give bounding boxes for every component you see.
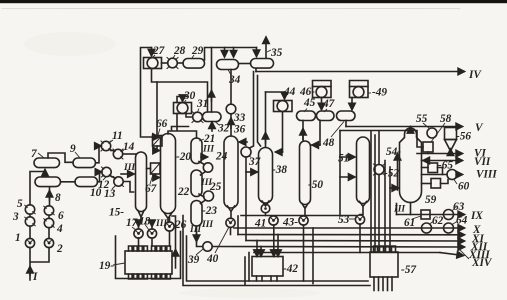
- wire arrows into drum 34: [224, 48, 226, 57]
- leader 53: [349, 218, 355, 220]
- wire 59 out: [441, 180, 449, 184]
- svg-text:67: 67: [145, 183, 158, 195]
- pump 40: [226, 218, 235, 227]
- wire 23 down to mixer 39: [197, 226, 203, 247]
- leader 35: [267, 50, 271, 52]
- wire col36 up to 33: [230, 114, 232, 136]
- pump 1: [25, 238, 34, 247]
- svg-text:48: 48: [322, 137, 335, 149]
- column 20 bottom taper: [164, 213, 172, 223]
- wire valve6 up to exchanger 8: [49, 188, 51, 206]
- svg-text:-65: -65: [438, 160, 453, 172]
- wire 46 down into drum 45: [321, 98, 323, 110]
- leader 12: [103, 177, 106, 180]
- svg-text:IV: IV: [468, 69, 482, 81]
- wire 52 down to furnace 57: [378, 175, 380, 253]
- exchanger 42: [252, 257, 283, 277]
- svg-text:36: 36: [233, 124, 246, 136]
- wire 32 bottom arrow: [211, 123, 213, 132]
- wires pumps to furnace 19: [139, 231, 170, 246]
- mixer 39: [203, 242, 212, 251]
- mixer 12: [102, 167, 112, 177]
- wire 54 to 65: [422, 167, 429, 169]
- drum 35: [251, 59, 274, 69]
- svg-text:32: 32: [217, 123, 230, 135]
- wire column20 bottom to pump 18: [151, 222, 153, 229]
- wire 9 to mixer 11: [96, 146, 101, 163]
- wire 29 top line over to 34 and 35: [205, 48, 257, 61]
- wire pump43 drop: [303, 225, 305, 281]
- compressor 46: [313, 87, 332, 98]
- drum 34: [217, 60, 239, 70]
- column 51: [357, 137, 370, 204]
- svg-text:IX: IX: [470, 210, 483, 222]
- wire pump1 to valve 3: [29, 226, 31, 238]
- line XII: [246, 240, 464, 243]
- svg-text:III: III: [123, 163, 135, 173]
- wire 34 down to valve 33: [230, 70, 232, 105]
- wire down from hot line to compressor 27: [141, 48, 152, 138]
- mixer 28: [167, 58, 178, 69]
- wire 13 to column 15 lower: [123, 182, 133, 193]
- wire oval48 drain to line V: [345, 121, 347, 127]
- wire loop into 44: [266, 91, 285, 93]
- drum 32: [203, 112, 222, 122]
- wire valve3 to valve5: [29, 214, 31, 217]
- wire feed into column 36: [240, 141, 247, 143]
- wire 34 to 35: [239, 63, 251, 65]
- svg-text:64: 64: [456, 215, 468, 227]
- svg-text:54-: 54-: [386, 146, 401, 158]
- faint rule under bar: [2, 7, 460, 9]
- wire 7 top to 9: [48, 153, 73, 162]
- valve 52: [374, 164, 385, 175]
- wire feed arrow into 54 side: [390, 187, 398, 189]
- box 65: [428, 163, 438, 173]
- exchanger 8: [35, 177, 61, 187]
- wire 8 to 10: [61, 181, 76, 183]
- svg-text:XIV: XIV: [471, 257, 493, 269]
- svg-text:2: 2: [56, 243, 63, 255]
- leader 30: [184, 100, 186, 103]
- svg-text:53: 53: [338, 214, 350, 226]
- column 20 (main tower): [161, 134, 176, 214]
- svg-text:24: 24: [215, 151, 228, 163]
- line XI: [237, 216, 239, 235]
- wire col20 to pump 26: [169, 218, 171, 222]
- bottom return line a: [187, 236, 369, 281]
- leader 19: [113, 263, 125, 265]
- leader 11: [109, 140, 113, 143]
- wire drum45 down to col 50: [302, 121, 304, 142]
- leader 39: [196, 249, 203, 255]
- svg-text:39: 39: [187, 254, 200, 266]
- leader 67: [150, 175, 153, 185]
- svg-text:III: III: [155, 219, 167, 229]
- leader 13: [112, 185, 116, 189]
- furnace 19: [125, 246, 172, 279]
- svg-text:22: 22: [177, 186, 190, 198]
- valve 4: [44, 218, 54, 227]
- column 50 bottom: [302, 204, 308, 216]
- line X: [234, 227, 464, 229]
- svg-text:-56: -56: [456, 131, 471, 143]
- circle 60: [447, 170, 457, 180]
- svg-text:I: I: [32, 271, 38, 283]
- wire 49 loop: [350, 81, 369, 87]
- wire drop 278: [277, 235, 279, 256]
- leader 14: [121, 150, 124, 152]
- svg-text:8: 8: [55, 192, 61, 204]
- wire 21 to valve 24: [199, 162, 205, 165]
- wire 11 to 14: [110, 150, 115, 152]
- column 50: [300, 141, 311, 205]
- nested return wires left of 42: [245, 253, 249, 286]
- wire drop 257: [256, 241, 258, 256]
- leader 37: [248, 156, 251, 157]
- line VII: [422, 160, 463, 162]
- svg-text:11: 11: [112, 130, 123, 142]
- leader 26: [174, 225, 177, 226]
- leader 18: [144, 223, 149, 230]
- svg-text:45: 45: [303, 97, 316, 109]
- pump 41: [269, 216, 278, 225]
- wire III into 54 bottom line: [396, 204, 398, 215]
- wire 46 loop: [313, 81, 332, 87]
- leader 32: [215, 122, 219, 126]
- pump 2: [44, 238, 53, 247]
- wire stub into column 38 left: [246, 171, 257, 173]
- vent arrow 35: [265, 38, 267, 59]
- box 58a: [423, 142, 433, 152]
- leader 17: [132, 227, 136, 230]
- leader 61: [412, 216, 421, 219]
- drum 67: [151, 163, 161, 174]
- leader 27: [152, 55, 155, 58]
- wire 49 down into drum 48: [351, 98, 353, 110]
- valve 5: [25, 205, 35, 214]
- wire 52 riser: [378, 131, 380, 165]
- second overhead line to 58: [340, 131, 423, 148]
- wire 65 to 60: [438, 168, 443, 175]
- svg-text:18: 18: [139, 216, 151, 228]
- wire riser from vapor line up: [211, 48, 213, 113]
- wire arrow into 54 on VII: [424, 160, 429, 162]
- leader 55: [423, 123, 430, 129]
- svg-text:55: 55: [416, 113, 428, 125]
- column 51 bottom to pump 53: [360, 202, 367, 215]
- svg-text:-50: -50: [308, 179, 323, 191]
- mixer 11: [101, 141, 111, 151]
- leader 45: [304, 109, 307, 113]
- line IV: [256, 71, 464, 73]
- column 36 bottom to pump 40: [228, 206, 235, 218]
- leader 34: [228, 70, 231, 76]
- pump 26: [165, 222, 174, 231]
- leader 60: [454, 180, 457, 185]
- svg-text:III: III: [189, 225, 201, 235]
- line XIV: [254, 252, 440, 254]
- column 38: [259, 148, 273, 204]
- wire 54 to 59: [422, 183, 432, 185]
- pump 17: [134, 229, 143, 238]
- leader 58: [431, 123, 445, 142]
- leader 29: [192, 55, 194, 58]
- svg-text:-57: -57: [401, 264, 417, 276]
- mixer 31: [192, 112, 203, 123]
- wire 14 to column 15: [123, 153, 136, 155]
- wire 25 to 23: [201, 200, 206, 204]
- wire 30 to 31: [186, 114, 193, 118]
- wire downcomer 340 with feeds to col 51: [339, 131, 341, 216]
- svg-text:-23: -23: [202, 205, 217, 217]
- line XIII: [212, 246, 464, 249]
- line V: [346, 126, 462, 128]
- wire 27 to 28: [162, 62, 168, 64]
- svg-text:43-: 43-: [282, 217, 298, 229]
- box 59: [431, 179, 441, 189]
- svg-text:37: 37: [248, 156, 262, 168]
- leader 21: [199, 139, 204, 141]
- wire pump53 drop: [359, 224, 361, 252]
- flasher 23: [191, 201, 202, 227]
- svg-text:-38: -38: [272, 164, 287, 176]
- wire pump38a down: [265, 213, 267, 216]
- compressor 44: [274, 101, 293, 112]
- exchanger 10: [75, 177, 98, 187]
- svg-text:60: 60: [458, 181, 470, 193]
- svg-text:-52: -52: [384, 168, 399, 180]
- pump 43: [299, 216, 308, 225]
- svg-text:40: 40: [206, 253, 219, 265]
- wire 10 to mixer 12: [98, 172, 101, 182]
- svg-text:21: 21: [203, 133, 215, 145]
- exchanger 9: [73, 158, 96, 168]
- box 61: [421, 210, 430, 219]
- svg-text:33: 33: [233, 112, 246, 124]
- svg-text:5: 5: [17, 198, 23, 210]
- line VIII: [422, 174, 448, 176]
- wire pump 40 down: [230, 227, 232, 234]
- circle 63: [444, 210, 454, 220]
- leader 49: [368, 92, 371, 94]
- mixer 37: [241, 147, 251, 157]
- valve 3: [25, 217, 35, 226]
- svg-text:III: III: [201, 220, 213, 230]
- svg-text:25: 25: [209, 181, 222, 193]
- wire column15 bottom to pump 17: [138, 222, 140, 229]
- line IX: [410, 203, 412, 215]
- bottom return line b: [183, 216, 370, 286]
- leader 28: [173, 55, 175, 58]
- wire second downcomer: [258, 76, 261, 147]
- svg-text:15-: 15-: [109, 207, 124, 219]
- leader 31: [198, 109, 200, 113]
- svg-text:29: 29: [191, 45, 204, 57]
- wire 27 bottom header: [152, 69, 208, 113]
- pump 18: [147, 229, 156, 238]
- pump 38a: [261, 204, 270, 213]
- column 38 bottom to pump: [262, 201, 269, 206]
- furnace 57: [370, 246, 398, 291]
- top border bar: [0, 0, 507, 3]
- wire col15 to 67: [147, 168, 151, 170]
- separator 56: [445, 128, 457, 156]
- svg-text:3: 3: [12, 211, 19, 223]
- svg-text:58: 58: [440, 113, 452, 125]
- valve 33: [226, 104, 236, 114]
- wire valve5 up to exchanger 7: [30, 172, 45, 205]
- wire arrow into drum 35: [256, 48, 258, 57]
- svg-text:9: 9: [70, 143, 76, 155]
- wire drum47 down to col 50 feed: [311, 121, 320, 146]
- wire frame down to mixer 37: [250, 72, 254, 149]
- line VI: [417, 153, 462, 155]
- wire col20 top to drum 21 top header: [168, 114, 197, 139]
- leader 66: [158, 129, 160, 136]
- mixer 13: [114, 177, 124, 187]
- leader 7: [38, 153, 44, 158]
- wire 22 to valve 25: [199, 194, 204, 197]
- drum 48: [337, 111, 356, 121]
- exchanger 42 legs: [257, 276, 278, 281]
- svg-text:III: III: [393, 205, 405, 215]
- svg-text:13: 13: [104, 188, 116, 200]
- svg-text:14: 14: [123, 141, 135, 153]
- wire III arrow into column 15: [121, 173, 134, 175]
- wire feed I riser: [30, 248, 49, 281]
- svg-text:47: 47: [322, 98, 336, 110]
- wire drop 313: [312, 228, 314, 284]
- svg-text:62: 62: [432, 215, 444, 227]
- valve 24: [203, 163, 212, 172]
- wires into 57 from right section: [371, 131, 390, 252]
- reactor 54: [400, 128, 422, 203]
- svg-text:30: 30: [183, 90, 196, 102]
- column 15 bottom taper: [138, 211, 144, 223]
- wire 58a to VI: [427, 152, 429, 154]
- svg-text:66: 66: [156, 118, 168, 130]
- wire pump2 to valve 4: [48, 228, 50, 239]
- svg-text:VII: VII: [474, 156, 491, 168]
- furnace transfer line up to column 20: [172, 216, 176, 268]
- leader 62: [429, 222, 433, 225]
- circle 55: [427, 128, 437, 138]
- leader XIV: [459, 249, 469, 259]
- svg-text:59: 59: [425, 194, 437, 206]
- svg-text:41: 41: [254, 218, 266, 230]
- wire valve4 to valve6: [48, 215, 50, 218]
- pump header line: [241, 215, 356, 217]
- column 15: [136, 152, 147, 212]
- drum 66: [153, 136, 163, 147]
- leader 48: [331, 122, 344, 138]
- compressor 49: [350, 87, 369, 98]
- circle 64: [444, 223, 454, 233]
- wire 12 to 13: [110, 176, 115, 179]
- wire 24 to 22: [201, 172, 206, 176]
- wire 30 loop: [177, 97, 188, 103]
- wire 66 to column 20: [157, 146, 159, 151]
- svg-text:-20: -20: [176, 151, 191, 163]
- leader 63: [452, 207, 456, 212]
- wire 35 drain and product line IV: [255, 68, 257, 71]
- leader 47: [324, 109, 327, 112]
- wire down branch to 66: [156, 82, 158, 136]
- valve 6: [44, 206, 54, 215]
- drum 45: [297, 111, 316, 121]
- compressor 30: [174, 103, 192, 114]
- flasher 21: [191, 138, 202, 164]
- wire 37 down: [245, 157, 247, 241]
- svg-text:34: 34: [228, 74, 241, 86]
- svg-text:-42: -42: [283, 263, 298, 275]
- leader 64: [452, 222, 457, 225]
- wire drop 261: [260, 247, 262, 256]
- furnace loop wire: [116, 232, 181, 279]
- svg-text:III: III: [202, 145, 214, 155]
- wire III arrow near 24: [201, 156, 207, 158]
- wire 54 top vent: [410, 127, 412, 130]
- svg-text:1: 1: [15, 232, 21, 244]
- drum 29: [183, 59, 205, 69]
- drum 47: [317, 111, 335, 121]
- wire pump41 drop to exchanger 42: [273, 225, 275, 256]
- svg-text:44: 44: [283, 86, 296, 98]
- mixer 14: [113, 149, 123, 159]
- svg-text:4: 4: [56, 223, 63, 235]
- circle 62: [422, 223, 432, 233]
- exchanger 7: [34, 158, 60, 168]
- column 36: [224, 136, 238, 208]
- svg-text:-49: -49: [372, 87, 387, 99]
- wire 28 to 29: [177, 62, 183, 64]
- leader 40: [215, 227, 229, 253]
- wire feed riser into 54 left: [397, 154, 399, 190]
- svg-text:19-: 19-: [99, 260, 114, 272]
- wire 44 down to col 38 feed: [276, 112, 283, 153]
- svg-text:63: 63: [453, 201, 465, 213]
- svg-text:35: 35: [270, 47, 283, 59]
- wire 44 left riser: [265, 92, 267, 147]
- wire 67 to column 20: [154, 174, 156, 178]
- svg-text:VIII: VIII: [476, 169, 497, 181]
- svg-text:31: 31: [196, 98, 208, 110]
- pump 53: [355, 215, 364, 224]
- svg-text:51-: 51-: [338, 153, 353, 165]
- svg-text:6: 6: [58, 210, 64, 222]
- svg-text:27: 27: [152, 45, 166, 57]
- valve 25: [204, 191, 214, 201]
- flasher 22: [191, 170, 202, 197]
- compressor 27: [144, 58, 162, 69]
- leader 9: [75, 152, 80, 158]
